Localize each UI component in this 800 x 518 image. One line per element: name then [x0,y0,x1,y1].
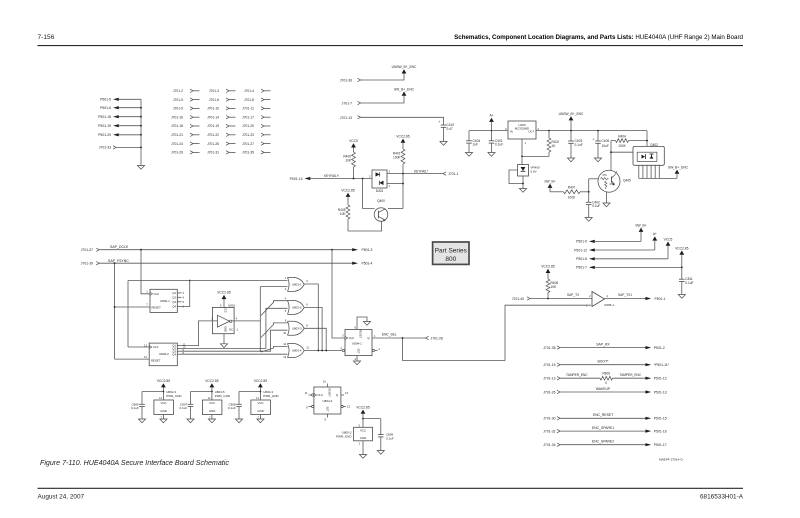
svg-text:P501-7: P501-7 [576,266,587,270]
svg-text:VCC: VCC [258,401,264,405]
power block U802-3 PWR_GND [154,387,182,419]
wire UNSW to bus [570,120,572,131]
wire U801 output bus [232,287,260,352]
svg-text:IN: IN [510,130,513,134]
svg-text:U802-1: U802-1 [160,299,170,303]
svg-text:+: + [439,120,441,124]
wire WAKEUP [560,387,651,394]
svg-text:VCC2.85: VCC2.85 [205,379,219,383]
svg-text:0: 0 [605,381,607,385]
svg-text:2: 2 [211,317,213,321]
svg-text:J701-31: J701-31 [207,151,219,155]
svg-text:10uF: 10uF [602,144,609,148]
svg-text:J701-5: J701-5 [173,98,183,102]
svg-text:U803-1: U803-1 [292,283,302,287]
svg-text:ENC_RESET: ENC_RESET [593,413,613,417]
wire SAP_TX [530,293,592,299]
svg-text:P501-9: P501-9 [576,240,587,244]
flip-flop U804-1 [341,325,381,360]
svg-text:J701-20: J701-20 [242,124,254,128]
connector pin P501-19 [98,124,141,128]
connector pin J701-13 [340,116,361,120]
svg-text:BOOT*: BOOT* [598,360,610,364]
svg-text:Figure 7-110. HUE4040A Secure: Figure 7-110. HUE4040A Secure Interface … [40,459,229,467]
wire A+ to bus [491,122,493,132]
svg-text:Q4: Q4 [172,352,176,356]
svg-text:J701-8: J701-8 [244,98,254,102]
connector pin J701-4 [244,89,271,93]
svg-text:GND: GND [224,326,228,332]
ground [220,344,227,348]
svg-text:P501-4: P501-4 [362,262,373,266]
connector pin J701-33 [99,146,141,150]
capacitor C807 0.1uF [180,392,212,420]
svg-text:C405: C405 [602,139,610,143]
connector pin J701-26 [543,390,560,394]
transistor Q400 [374,199,388,222]
svg-text:6: 6 [355,325,357,329]
connector pin P501-5 [100,98,141,102]
svg-text:10K: 10K [551,285,558,289]
power VCC2.85 [217,291,231,307]
connector pin P501-8 [576,257,668,261]
wire SAP_TX1 to P501-1 [605,293,666,301]
buffer U801 [211,303,238,343]
svg-text:SAP_TX: SAP_TX [567,293,580,297]
svg-text:P501-1: P501-1 [655,297,666,301]
svg-text:NC: NC [229,327,233,331]
wire bus to gate2 pin4 [261,301,288,316]
svg-text:J701-15: J701-15 [543,363,555,367]
svg-text:1: 1 [146,290,148,294]
connector pin J701-19 [207,124,235,128]
svg-text:10K: 10K [345,158,352,162]
svg-text:SAP_TX1: SAP_TX1 [618,293,632,297]
capacitor C410 0.47 [439,120,455,142]
svg-text:1K: 1K [552,144,557,148]
diode D401 dual [369,170,391,193]
svg-text:J701-2: J701-2 [173,89,183,93]
svg-text:TAMPER_ENC: TAMPER_ENC [566,373,588,377]
svg-text:SW_B+_ENC: SW_B+_ENC [668,165,689,169]
svg-text:5: 5 [183,300,185,304]
svg-text:CLK: CLK [153,345,159,349]
svg-text:Q400: Q400 [377,199,385,203]
svg-text:SET: SET [326,406,330,411]
ground [440,142,447,146]
svg-text:U802-2: U802-2 [159,352,169,356]
wire U805 enable [403,305,592,360]
wire bus to gate3 pin9 [261,323,288,338]
capacitor C405 10uF [593,130,610,158]
svg-text:8: 8 [325,418,327,422]
counter U802-1 [146,289,184,312]
transistor Q402 dual FET [633,143,664,165]
svg-text:11: 11 [305,391,308,395]
power VCC2.85 [541,265,555,273]
connector pin P501-13 [654,390,667,394]
svg-text:KEYFAIL*: KEYFAIL* [414,169,429,173]
resistor R404 100K [611,135,647,149]
svg-text:ENC_SEL: ENC_SEL [382,332,397,336]
or gate U803-1 [285,276,309,291]
svg-text:P501-19: P501-19 [98,124,111,128]
connector pin J701-20 [242,124,270,128]
svg-text:P501-6: P501-6 [100,106,111,110]
wire J701-36 to UNSW_B+_ENC [361,74,404,81]
svg-text:J701-37: J701-37 [81,248,93,252]
svg-text:RESET: RESET [151,359,161,363]
svg-text:R809: R809 [602,372,610,376]
svg-text:2: 2 [538,127,540,131]
wire Q402 pins [639,165,677,178]
connector pin J701-16 [171,115,199,119]
svg-text:P501-3: P501-3 [362,248,373,252]
wire J701-13 to C410 [361,117,444,125]
svg-text:P501-17: P501-17 [654,443,667,447]
svg-text:PWR_GND: PWR_GND [263,394,279,398]
wire Q405 emitter [606,192,608,203]
connector pin J701-28 [426,336,443,340]
connector pin P501-6 [100,106,141,110]
resistor R401 100K [393,143,405,174]
svg-text:7: 7 [146,303,148,307]
svg-text:1: 1 [374,334,376,338]
svg-text:U805-1: U805-1 [604,303,614,307]
svg-text:J701-23: J701-23 [242,133,254,137]
svg-text:RESET: RESET [152,305,162,309]
svg-text:J701-11: J701-11 [242,107,254,111]
svg-text:VCC5: VCC5 [349,139,358,143]
svg-text:J701-27: J701-27 [242,142,254,146]
connector pin J701-23 [242,133,270,137]
svg-text:12: 12 [347,405,350,409]
svg-text:P501-2: P501-2 [654,346,665,350]
wire R404 to Q405 collector [610,141,633,171]
svg-text:WAKEUP: WAKEUP [596,387,611,391]
svg-text:0.47: 0.47 [447,127,453,131]
svg-text:J701-19: J701-19 [207,124,219,128]
resistor R407 100K [550,185,589,199]
page footer [38,488,744,500]
connector pin J701-11 [242,107,270,111]
svg-text:J701-33: J701-33 [99,146,111,150]
connector pin J701-31 [207,151,235,155]
svg-text:13: 13 [283,355,286,359]
svg-text:A+: A+ [653,232,657,236]
connector pin J701-34 [543,443,560,447]
wire U804-1 set to ground [356,356,358,361]
ground [257,419,264,423]
svg-text:P501-5: P501-5 [100,98,111,102]
svg-text:A+: A+ [489,114,493,118]
svg-text:10: 10 [323,380,326,384]
svg-text:VCC2.85: VCC2.85 [217,291,231,295]
svg-text:5: 5 [341,347,343,351]
connector pin J701-9 [173,107,200,111]
svg-text:VCC: VCC [224,307,228,313]
power SW_B+_ENC [668,165,689,178]
connector pin J701-24 [171,142,199,146]
svg-text:1: 1 [525,141,527,145]
connector pin J701-7 [342,101,361,105]
connector pin J701-30 [543,417,560,421]
svg-text:UNSW_B+_ENC: UNSW_B+_ENC [559,112,584,116]
svg-text:1uF: 1uF [473,143,479,147]
connector pin P501-12 [654,377,667,381]
svg-text:CLK: CLK [349,336,355,340]
connector pin P501-20 [98,133,141,137]
buffer U805-1 [586,292,614,308]
wire VR400 loop [509,170,524,189]
wire KEYFAIL*/ net [310,174,372,179]
wire ENC_RESET [560,413,651,420]
power A+ [489,114,494,122]
svg-text:J701-39: J701-39 [81,262,93,266]
svg-text:0.1uF: 0.1uF [228,406,236,410]
connector pin J701-39 [81,262,100,266]
ground [187,419,194,423]
connector pin J701-18 [171,124,199,128]
svg-text:GND: GND [257,409,263,413]
svg-text:3: 3 [389,170,391,174]
svg-text:SW_B+: SW_B+ [635,224,646,228]
svg-text:RESET: RESET [328,388,332,397]
power VCC5 [349,139,358,147]
svg-text:Q4: Q4 [172,305,176,309]
svg-text:10K: 10K [340,212,347,216]
svg-text:VCC: VCC [161,401,167,405]
svg-text:U803-4: U803-4 [292,349,302,353]
ground [138,419,145,423]
power block U804-3 PWR_GND [251,387,279,419]
or gate U803-3 [283,319,308,336]
connector pin J701-13 [543,377,560,381]
svg-text:R407: R407 [568,185,576,189]
power VCC2.85 [341,189,355,197]
wire SAP_DCLK [99,245,353,250]
wire bus to gate4 pin12 [261,346,288,352]
wire U802-2 Q1 to U801 input [182,321,218,346]
ground [465,153,472,157]
connector pin J701-40 [512,297,530,301]
ground [208,419,215,423]
capacitor C808 0.1uF [228,392,260,420]
resistor R402 1K [547,130,559,157]
connector pin J701-14 [207,115,235,119]
svg-text:U801: U801 [228,303,236,307]
svg-text:U804-2: U804-2 [323,399,333,403]
svg-text:6816533H01-A: 6816533H01-A [700,494,744,501]
svg-text:0.1uF: 0.1uF [131,406,139,410]
svg-text:J701-21: J701-21 [171,133,183,137]
or gate U803-2 [285,297,309,315]
capacitor C806 0.1uF [131,392,163,420]
power A+ [652,232,657,250]
svg-text:Q2: Q2 [172,296,176,300]
capacitor C403 0.1uF [568,131,583,158]
flip-flop U804-2 spare [305,380,351,422]
svg-text:4: 4 [355,357,357,361]
capacitor C809 0.1uF [363,419,394,451]
svg-text:J701-38: J701-38 [543,346,555,350]
svg-text:J701-17: J701-17 [242,115,254,119]
svg-text:14: 14 [256,397,259,400]
svg-text:3: 3 [342,334,344,338]
svg-text:SAP_FSYNC: SAP_FSYNC [108,259,129,263]
resistor R400 10K [343,148,355,179]
svg-text:Q: Q [367,336,370,340]
svg-text:10: 10 [283,331,286,335]
svg-text:2: 2 [369,175,371,179]
svg-text:VCC2.85: VCC2.85 [254,379,268,383]
svg-text:13: 13 [345,391,348,395]
svg-text:3: 3 [306,279,308,283]
svg-text:5: 5 [359,424,361,427]
svg-text:P501-12: P501-12 [574,248,587,252]
ground [359,455,366,459]
svg-text:14: 14 [159,397,162,400]
connector pin J701-22 [207,133,235,137]
svg-text:VCC2.85: VCC2.85 [356,405,370,409]
svg-text:9: 9 [285,319,287,323]
svg-text:VCC5: VCC5 [664,237,673,241]
svg-text:J701-30: J701-30 [543,417,555,421]
ground [377,451,384,455]
svg-text:J701-22: J701-22 [207,133,219,137]
regulator U400 MC33269D [505,121,540,156]
connector pin P501-18 [98,115,141,119]
svg-text:6: 6 [306,303,308,307]
svg-text:J701-7: J701-7 [342,102,352,106]
svg-text:PWR_GND: PWR_GND [336,435,352,439]
connector pin J701-21 [171,133,199,137]
svg-text:ENC_SPARE2: ENC_SPARE2 [592,440,614,444]
power SW_B+_ENC [394,87,415,95]
svg-text:+: + [593,137,595,141]
svg-text:VCC2.85: VCC2.85 [157,379,171,383]
svg-text:J701-10: J701-10 [207,107,219,111]
zener VR400 5.6V [518,165,541,177]
figure caption [40,459,229,467]
wire gate1 input net [128,281,288,348]
power SW_B+ [544,180,555,188]
page header [38,34,744,46]
svg-text:GND: GND [209,409,215,413]
svg-text:4: 4 [285,297,287,301]
connector pin J701-27 [242,142,270,146]
wire SAP_DCLK to U804-1 CLK [332,250,345,338]
connector pin P501-17 [654,443,667,447]
capacitor C811 0.1uF [679,267,694,295]
wire SAP_RX [560,342,651,349]
svg-text:J701-4: J701-4 [244,89,254,93]
wire U802-1 Q4 up [182,280,191,307]
svg-text:SW_B+: SW_B+ [544,180,555,184]
wire bus to Q402 [646,131,648,147]
ground [353,361,360,365]
svg-text:J701-25: J701-25 [207,142,219,146]
svg-text:1: 1 [285,276,287,280]
connector pin J701-6 [209,98,236,102]
wire KEYFAIL* to J701-1 [387,169,443,174]
wire U400 adj node [521,156,549,165]
svg-text:J701-29: J701-29 [171,151,183,155]
svg-text:ENC_SPARE1: ENC_SPARE1 [592,426,614,430]
connector pin J701-10 [207,107,235,111]
svg-text:VCC2.85: VCC2.85 [675,246,689,250]
svg-text:J701-28: J701-28 [431,336,443,340]
sheet id MAEPF-27914-O [659,458,683,462]
svg-text:U803-3: U803-3 [292,327,302,331]
wire SAP_FSYNC to resets [114,263,150,359]
connector pin *P501-11* [654,363,670,367]
svg-text:5.6V: 5.6V [531,169,537,173]
connector pin J701-5 [173,98,200,102]
svg-text:GND: GND [160,409,166,413]
connector pin P501-4 [352,262,372,266]
connector pin P501-3 [352,248,372,252]
svg-text:P501-14: P501-14 [290,177,303,181]
svg-text:0.1uF: 0.1uF [592,204,600,208]
svg-text:4: 4 [607,294,609,298]
svg-text:J701-9: J701-9 [173,107,183,111]
svg-text:Part Series: Part Series [435,247,468,254]
wire bus to gate1 pin2 [260,286,287,288]
svg-text:1: 1 [389,184,391,188]
connector pin J701-15 [543,363,560,367]
ground [678,295,685,299]
svg-text:8: 8 [306,324,308,328]
svg-text:4: 4 [183,296,185,300]
svg-text:5: 5 [285,309,287,313]
wire gate outputs to U804-1 D [304,284,342,351]
svg-text:J701-36: J701-36 [340,79,352,83]
ground [603,203,610,207]
power UNSW_B+_ENC [392,65,417,73]
svg-text:J701-16: J701-16 [171,115,183,119]
wire J701-7 to SW_B+_ENC [361,96,404,103]
ground [594,158,601,162]
svg-text:UNSW_B+_ENC: UNSW_B+_ENC [392,65,417,69]
svg-text:4: 4 [236,317,238,321]
svg-text:*P501-11*: *P501-11* [654,363,670,367]
svg-text:J701-6: J701-6 [209,98,219,102]
connector pin J701-8 [244,98,271,102]
svg-text:11: 11 [306,346,309,350]
svg-text:P501-18: P501-18 [98,115,111,119]
capacitor C401 0.1uF [489,131,504,153]
svg-text:12: 12 [283,342,286,346]
wire ENC_SPARE2 [560,440,651,447]
wire D401 pin1 to Q400 collector [387,174,404,209]
svg-text:0.1uF: 0.1uF [685,281,693,285]
wire BOOT* [560,360,651,367]
svg-text:47K: 47K [602,174,607,177]
capacitor C402 0.1uF [586,200,601,217]
svg-text:SET: SET [357,348,361,353]
ground [137,166,144,170]
power VCC2.85 [675,246,689,267]
svg-text:Q3: Q3 [172,300,176,304]
wire U802-2 Q3 to gate3 pin10 [182,330,288,351]
svg-text:5: 5 [220,303,222,307]
svg-text:2: 2 [285,287,287,291]
connector pin P501-12 [574,248,655,252]
ground [567,158,574,162]
svg-text:13: 13 [144,343,147,347]
ground [585,218,592,222]
